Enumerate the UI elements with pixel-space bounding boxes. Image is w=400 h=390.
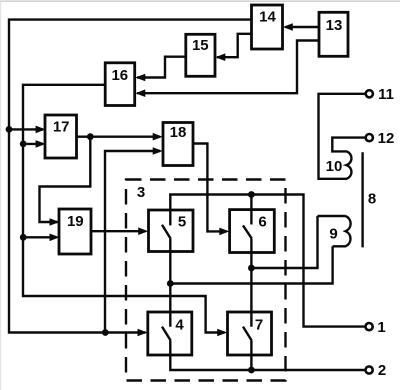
box 4 <box>148 312 192 355</box>
wire: switch blade in 7 <box>243 327 252 341</box>
page border <box>0 0 400 2</box>
wire: 6 bottom to 7 top stub <box>250 238 252 326</box>
svg-text:5: 5 <box>178 214 186 231</box>
junction dot <box>167 280 174 287</box>
junction dot <box>6 126 13 133</box>
wire: 18 output down into 6 <box>193 144 227 232</box>
wire: 7 bottom to bottom bus <box>250 341 252 370</box>
wire: 17 output to 18 input 1 <box>77 135 161 137</box>
arrow into 14 <box>283 23 293 31</box>
junction dot <box>20 141 27 148</box>
arrow into 19 input 2 <box>50 234 60 242</box>
terminal 2 <box>366 366 373 373</box>
svg-text:15: 15 <box>192 37 209 54</box>
svg-text:7: 7 <box>255 317 263 334</box>
wire: 6 top stub <box>250 195 252 225</box>
wire: node under 6 to coil 9 top <box>251 216 317 268</box>
wire: 17 output loop down to 19 input 1 <box>40 137 91 222</box>
svg-text:2: 2 <box>378 362 386 379</box>
junction dot <box>20 234 27 241</box>
box 13 <box>319 12 348 56</box>
arrow into 18 input 2 <box>153 147 163 155</box>
arrow into 7 <box>217 329 227 337</box>
svg-text:18: 18 <box>170 124 187 141</box>
box 16 <box>105 63 135 106</box>
wire: branch into 17 input 2 <box>23 143 43 145</box>
terminal 1 <box>366 323 373 330</box>
dashed box 3 <box>126 180 286 381</box>
wire: 5 bottom to 4 top stub <box>169 239 171 327</box>
svg-text:3: 3 <box>137 184 145 201</box>
wire: 14 to 15 <box>217 34 252 57</box>
svg-text:1: 1 <box>377 319 385 336</box>
arrow into 4 <box>138 329 148 337</box>
coil 9 <box>318 216 351 246</box>
wire: 13 down to 16 input 2 <box>137 41 319 94</box>
svg-text:12: 12 <box>378 130 395 147</box>
junction dot <box>248 265 255 272</box>
box 15 <box>186 34 215 76</box>
arrow into 19 input 1 <box>50 218 60 226</box>
svg-text:10: 10 <box>326 158 343 175</box>
arrow into 18 input 1 <box>153 133 163 141</box>
svg-text:11: 11 <box>378 86 394 103</box>
arrow into 6 <box>219 228 229 236</box>
box 5 <box>149 210 194 252</box>
box 18 <box>163 123 193 166</box>
wire: top node line (5 top, 6 top, to terminal 1) <box>170 195 365 327</box>
arrow into 5 <box>138 227 148 235</box>
junction dot <box>102 329 109 336</box>
wire: switch blade in 5 <box>162 225 171 239</box>
wire: branch from node to box 18 input 2 <box>105 151 160 333</box>
box 14 <box>252 5 283 49</box>
arrow into 16 input 1 <box>135 74 145 82</box>
svg-text:14: 14 <box>259 9 276 26</box>
box 17 <box>45 115 77 158</box>
junction dot <box>87 133 94 140</box>
svg-text:19: 19 <box>67 213 84 230</box>
wire: switch blade in 4 <box>162 327 171 341</box>
wire: switch blade in 6 <box>243 225 252 238</box>
arrow into 17 input 2 <box>36 140 46 148</box>
terminal 12 <box>366 134 373 141</box>
svg-text:6: 6 <box>258 214 266 231</box>
arrow into 15 <box>215 53 225 61</box>
svg-text:16: 16 <box>111 67 128 84</box>
wire: branch into 19 input 2 <box>23 236 57 238</box>
junction dot <box>248 191 255 198</box>
svg-text:13: 13 <box>326 17 343 34</box>
wire: branch into 17 input 1 <box>9 128 43 130</box>
box 6 <box>230 210 275 253</box>
wire: 4 bottom, bottom bus to terminal 2 <box>170 341 365 370</box>
wire: 15 to 16 <box>137 57 186 78</box>
wire: feedback bus left outer (top wire to 14, down left side, into 4) <box>9 20 252 333</box>
arrow into 16 input 2 <box>135 89 145 97</box>
svg-text:8: 8 <box>368 191 376 208</box>
svg-text:9: 9 <box>329 226 337 243</box>
core bar 8 <box>361 152 363 247</box>
wire: 13 to 14 <box>286 26 320 28</box>
coil 10 <box>319 94 366 179</box>
svg-text:17: 17 <box>53 119 70 136</box>
svg-text:4: 4 <box>175 317 184 334</box>
terminal 11 <box>366 90 373 97</box>
wire: 16 output bus (left, down, into 7) <box>23 85 225 333</box>
arrow into 17 input 1 <box>36 126 46 134</box>
wire: node under 5 to coil 9 bottom <box>170 246 332 283</box>
junction dot <box>248 367 255 374</box>
box 7 <box>228 312 272 355</box>
wire: 19 output into 5 <box>91 230 146 232</box>
box 19 <box>59 209 91 254</box>
